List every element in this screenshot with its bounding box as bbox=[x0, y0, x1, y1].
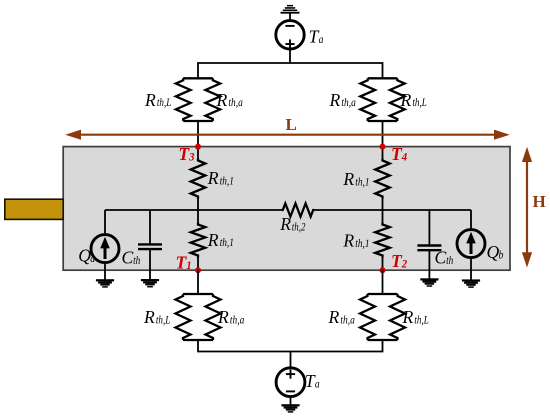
svg-text:R: R bbox=[342, 231, 354, 251]
label Cth (left) bbox=[122, 248, 141, 268]
svg-text:4: 4 bbox=[401, 149, 407, 163]
svg-text:R: R bbox=[328, 307, 340, 327]
capacitor Cth (left) bbox=[138, 244, 162, 249]
current source Qa bbox=[91, 235, 119, 263]
ground (below right Cth) bbox=[420, 278, 438, 286]
label Rth,a (bottom-left pair, right) bbox=[217, 307, 245, 327]
svg-text:R: R bbox=[216, 90, 228, 110]
wire: rail down to capacitor Cth (right) bbox=[428, 210, 430, 246]
resistor pair Rth,a / Rth,L (top-right) bbox=[360, 78, 404, 121]
svg-text:1: 1 bbox=[186, 258, 191, 272]
node T3 bbox=[195, 144, 201, 150]
label Rth,L (bottom-right) bbox=[402, 307, 429, 327]
ground (below Qa) bbox=[96, 279, 114, 287]
label T3 bbox=[178, 144, 194, 164]
dimension arrow H bbox=[522, 147, 532, 268]
resistor Rth,1 (lower-left column) bbox=[191, 223, 206, 258]
svg-text:2: 2 bbox=[401, 257, 407, 271]
resistor pair Rth,L / Rth,a (top-left) bbox=[176, 78, 220, 121]
svg-text:C: C bbox=[122, 248, 134, 268]
svg-text:th,a: th,a bbox=[228, 97, 243, 109]
svg-text:R: R bbox=[402, 307, 414, 327]
node T1 bbox=[195, 267, 201, 273]
resistor pair Rth,L / Rth,a (bottom-left) bbox=[176, 294, 221, 340]
svg-text:th,2: th,2 bbox=[292, 221, 306, 233]
svg-text:th,L: th,L bbox=[414, 314, 428, 326]
svg-text:a: a bbox=[315, 379, 320, 391]
label Rth,a (bottom-right pair, left) bbox=[328, 307, 356, 327]
dimension arrow L bbox=[65, 130, 510, 140]
label Rth,1 (upper-right) bbox=[342, 169, 369, 189]
svg-text:R: R bbox=[143, 307, 155, 327]
label Rth,a (top-left pair, right) bbox=[216, 90, 244, 110]
svg-text:th: th bbox=[133, 255, 141, 267]
label Qb bbox=[487, 242, 504, 262]
wire: Qa to ground bbox=[104, 263, 106, 280]
resistor Rth,1 (upper-right column) bbox=[375, 159, 390, 199]
label Rth,1 (lower-right) bbox=[342, 231, 369, 251]
svg-text:th,1: th,1 bbox=[220, 237, 234, 249]
wire: rail down to capacitor Cth (left) bbox=[149, 210, 151, 244]
svg-text:R: R bbox=[217, 307, 229, 327]
wire: source to top rail with stubs down to resistor pairs bbox=[198, 49, 383, 79]
wire: top-right pair to node T4 bbox=[382, 121, 384, 149]
svg-text:th,L: th,L bbox=[156, 314, 170, 326]
label T1 bbox=[176, 252, 192, 272]
svg-text:th,1: th,1 bbox=[355, 238, 369, 250]
label Rth,L (bottom-left) bbox=[143, 307, 170, 327]
node T2 bbox=[380, 267, 386, 273]
svg-text:R: R bbox=[207, 230, 219, 250]
wire: Qb to ground bbox=[470, 258, 472, 280]
resistor pair Rth,a / Rth,L (bottom-right) bbox=[360, 294, 405, 340]
label Ta (bottom) bbox=[305, 371, 320, 391]
svg-text:th,a: th,a bbox=[230, 314, 245, 326]
wire: top ground to source Ta bbox=[289, 13, 291, 21]
wire: node T1 to bottom-left pair bbox=[197, 270, 199, 294]
svg-text:H: H bbox=[533, 192, 546, 211]
voltage source Ta (bottom) bbox=[276, 368, 305, 397]
label Rth,a (top-right pair, left) bbox=[329, 90, 357, 110]
resistor Rth,1 (upper-left column) bbox=[191, 159, 206, 199]
label Cth (right) bbox=[435, 248, 454, 268]
wire: middle rail right segment bbox=[315, 209, 471, 211]
wire: Cth to ground (left) bbox=[149, 249, 151, 279]
wire: middle rail left segment bbox=[105, 209, 281, 211]
svg-text:th,L: th,L bbox=[157, 97, 171, 109]
capacitor Cth (right) bbox=[417, 246, 441, 251]
wire: bottom source to ground bbox=[290, 397, 292, 405]
svg-text:th,a: th,a bbox=[341, 97, 356, 109]
wire: rail down to current source Qb bbox=[470, 210, 472, 230]
wire: top-left pair to node T3 bbox=[197, 121, 199, 149]
svg-text:R: R bbox=[207, 168, 219, 188]
node T4 bbox=[380, 144, 386, 150]
svg-text:th,1: th,1 bbox=[220, 176, 234, 188]
svg-text:th,L: th,L bbox=[412, 97, 426, 109]
svg-text:th,1: th,1 bbox=[355, 176, 369, 188]
label Rth,L (top-left) bbox=[144, 90, 171, 110]
label T2 bbox=[391, 251, 407, 271]
svg-text:R: R bbox=[342, 169, 354, 189]
svg-text:R: R bbox=[279, 214, 291, 234]
label Rth,1 (upper-left) bbox=[207, 168, 234, 188]
resistor Rth,2 bbox=[281, 203, 314, 216]
resistor Rth,1 (lower-right column) bbox=[375, 223, 390, 258]
svg-text:L: L bbox=[286, 115, 297, 134]
svg-text:C: C bbox=[435, 248, 447, 268]
svg-text:th: th bbox=[446, 255, 454, 267]
svg-text:3: 3 bbox=[188, 150, 194, 164]
voltage source Ta (top) bbox=[276, 21, 304, 49]
svg-text:th,a: th,a bbox=[340, 314, 355, 326]
label T4 bbox=[391, 144, 407, 164]
svg-text:a: a bbox=[319, 34, 324, 46]
wire: bottom rail joining pairs to source bbox=[198, 340, 383, 352]
body rectangle (beam) bbox=[63, 147, 510, 271]
svg-text:a: a bbox=[90, 253, 95, 265]
ground (bottom) bbox=[281, 404, 299, 412]
wire: Cth to ground (right) bbox=[428, 250, 430, 278]
wire: rail down to current source Qa bbox=[104, 210, 106, 235]
label Rth,1 (lower-left) bbox=[207, 230, 234, 250]
label Rth,L (top-right) bbox=[400, 90, 427, 110]
svg-text:R: R bbox=[329, 90, 341, 110]
ground (below Qb) bbox=[462, 279, 480, 287]
svg-text:b: b bbox=[499, 250, 504, 262]
svg-text:R: R bbox=[144, 90, 156, 110]
label Ta (top) bbox=[309, 26, 324, 46]
current source Qb bbox=[457, 230, 485, 258]
wire: node T2 to bottom-right pair bbox=[382, 270, 384, 294]
label Rth,2 bbox=[279, 214, 305, 234]
ground (below left Cth) bbox=[141, 279, 159, 287]
ground (top, inverted) bbox=[281, 5, 300, 14]
svg-text:R: R bbox=[400, 90, 412, 110]
anchor tab (gold) bbox=[5, 199, 63, 219]
label Qa bbox=[78, 246, 95, 266]
